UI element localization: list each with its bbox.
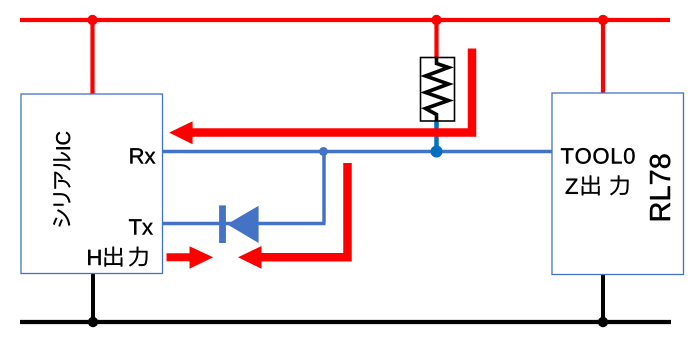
arrow: thick red current path from Rx net down toward H出力 pin (238, 163, 348, 269)
pin label: TOOL0 (561, 148, 635, 164)
wire: resistor bottom lead (blue, darker) (434, 121, 439, 152)
wire: RL78 ground lead (black) (601, 275, 605, 323)
node: Rx net junction at resistor (darker blue) (431, 146, 443, 158)
arrow: thick red current path from resistor top into Rx pin (169, 49, 472, 145)
resistor R1: zigzag element (426, 58, 449, 121)
node: GND junction below serial IC (88, 317, 98, 327)
node: Rx net junction at Tx branch (319, 147, 328, 156)
label: Z出力 (566, 176, 629, 196)
arrow: small red H-output drive arrow (pointing right) (167, 246, 214, 268)
wire: Rx net horizontal (blue) (163, 150, 552, 154)
wire: VDD drop to RL78 (red) (601, 20, 605, 93)
wire: Tx branch riser (blue) (322, 152, 326, 224)
IC U1: serial IC box (21, 94, 163, 274)
diode D1: anode triangle (pointing left) (227, 206, 259, 243)
pin label: Tx (129, 219, 153, 234)
label: シリアルIC (vertical, rotated -90) (53, 132, 70, 227)
pin label: Rx (130, 148, 155, 163)
diode D1: cathode bar (219, 205, 226, 243)
label: RL78 (vertical, rotated -90) (650, 154, 671, 220)
node: VDD junction above pull-up resistor (431, 15, 441, 25)
wire: Tx line from serial IC through diode (blue) (163, 222, 326, 226)
wire: VDD power rail (top, red) (20, 18, 670, 22)
wire: VDD drop to serial IC (red) (90, 20, 94, 94)
wire: serial IC ground lead (black) (91, 274, 95, 323)
wire: VDD drop to resistor top (red) (434, 20, 438, 58)
node: VDD junction above serial IC (87, 15, 97, 25)
resistor R1: body box (421, 58, 455, 122)
node: GND junction below RL78 (598, 317, 608, 327)
node: VDD junction above RL78 (598, 15, 608, 25)
IC U2: RL78 box (552, 93, 684, 275)
pin label: H出力 (88, 247, 147, 267)
wire: GND rail (bottom, black) (20, 320, 671, 324)
